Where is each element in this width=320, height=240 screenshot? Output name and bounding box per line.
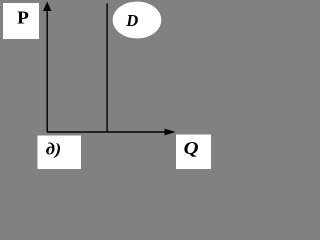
svg-text:д): д) [46, 139, 62, 158]
Q axis arrowhead [165, 129, 176, 136]
d) label box [38, 136, 82, 170]
Q label box [176, 135, 211, 170]
D ellipse callout [113, 2, 162, 39]
svg-text:P: P [17, 7, 29, 27]
svg-text:D: D [125, 11, 138, 30]
demand curve D (vertical line) [106, 4, 108, 132]
Q axis (horizontal) [47, 131, 165, 133]
P axis arrowhead [43, 2, 51, 12]
svg-text:Q: Q [184, 138, 199, 158]
P axis (vertical) [46, 9, 48, 132]
P label box [3, 3, 39, 39]
